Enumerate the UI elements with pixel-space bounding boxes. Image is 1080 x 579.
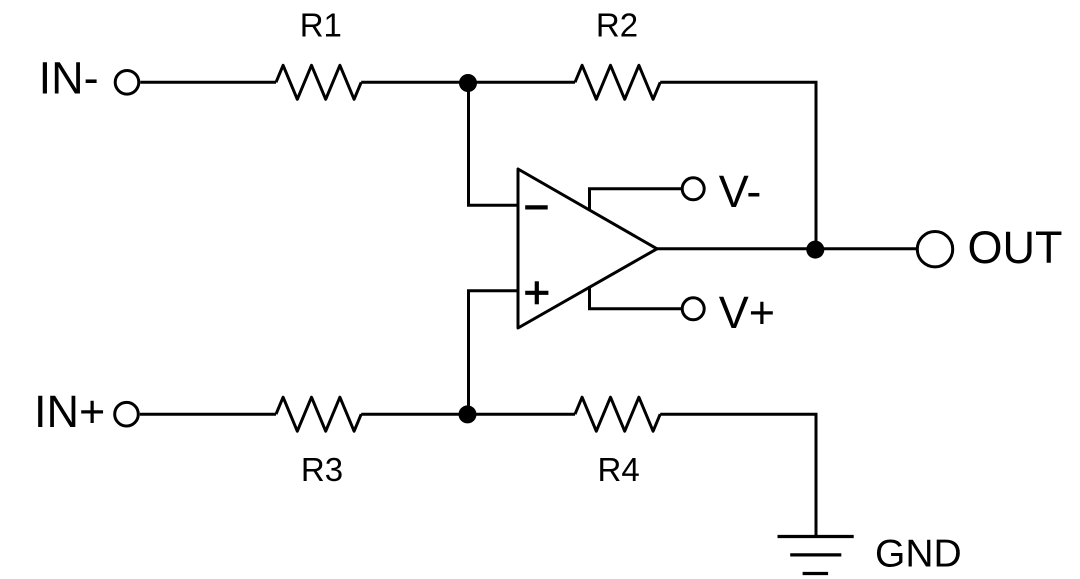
svg-text:GND: GND	[875, 533, 962, 576]
svg-text:V+: V+	[719, 287, 775, 338]
svg-text:R3: R3	[301, 451, 343, 488]
svg-text:R1: R1	[300, 7, 342, 44]
svg-text:R4: R4	[598, 451, 640, 488]
svg-text:V-: V-	[719, 166, 762, 217]
svg-text:IN+: IN+	[34, 386, 105, 437]
svg-text:R2: R2	[596, 7, 638, 44]
svg-text:IN-: IN-	[39, 53, 99, 104]
svg-text:OUT: OUT	[968, 222, 1063, 273]
